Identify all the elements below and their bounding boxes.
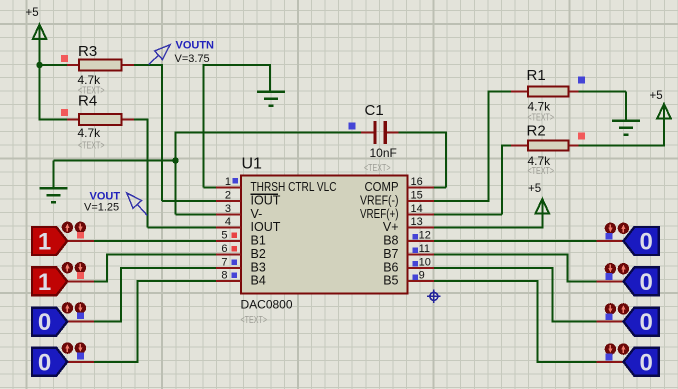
wire ground stem (R1 net): [625, 92, 627, 121]
wire VOUT net to pin 4: [148, 227, 218, 229]
svg-text:R3: R3: [78, 43, 97, 60]
toggle buttons (input 8): [605, 343, 629, 360]
junction at V- net: [172, 157, 178, 163]
svg-text:10: 10: [419, 257, 431, 269]
svg-text:3: 3: [225, 203, 231, 215]
wire C1 left horizontal: [175, 132, 362, 134]
wire VOUT net vertical to pin 4 row: [147, 119, 149, 228]
wire V- net to pin 3: [176, 214, 218, 216]
wire R3 right to corner: [134, 64, 163, 66]
pin 11 logic square blue: [412, 247, 418, 253]
logicstate input 6 (value 0): [597, 267, 659, 296]
pin 15 stub: [408, 200, 435, 202]
logicstate input 2 (value 1): [32, 267, 94, 296]
pin 13 stub: [408, 227, 435, 229]
svg-text:U1: U1: [242, 156, 263, 173]
toggle buttons (input 6): [605, 263, 629, 280]
svg-text:V=1.25: V=1.25: [84, 202, 119, 214]
svg-text:0: 0: [640, 349, 653, 376]
svg-text:0: 0: [38, 349, 51, 376]
resistor R2: [511, 141, 579, 151]
logicstate input 7 (value 0): [597, 308, 659, 337]
svg-text:R4: R4: [78, 93, 97, 110]
pin 10 stub: [408, 267, 435, 269]
wire VOUTN net to pin 2: [162, 200, 217, 202]
logicstate input 3 (value 0): [32, 308, 94, 337]
wire to pin 8: [138, 280, 217, 282]
power +5 terminal (R2 net): [650, 90, 671, 119]
ground symbol (R1 net): [612, 121, 640, 135]
svg-text:B3: B3: [251, 261, 266, 275]
svg-text:B1: B1: [251, 234, 266, 248]
wire logicstate 8 vertical: [537, 281, 539, 363]
svg-text:0: 0: [38, 309, 51, 336]
toggle buttons (input 2): [62, 262, 86, 279]
wire ground stem (VLC net): [269, 64, 271, 91]
svg-text:4: 4: [225, 216, 231, 228]
wire logicstate 8 horizontal: [538, 361, 597, 363]
wire pin 9 horizontal: [434, 280, 539, 282]
probe VOUTN: [149, 45, 170, 65]
svg-text:+5: +5: [650, 90, 663, 102]
pin 7 stub: [216, 267, 241, 269]
pin 9 logic square blue: [412, 274, 418, 280]
wire R2 left to corner: [502, 145, 511, 147]
svg-text:C1: C1: [365, 102, 384, 119]
svg-text:4.7k: 4.7k: [528, 100, 552, 114]
svg-text:V-: V-: [251, 207, 263, 221]
pin 2 stub: [216, 200, 241, 202]
wire R2 right to +5: [579, 145, 666, 147]
wire pin 15 to R1 corner: [434, 200, 489, 202]
pin 1 stub: [216, 187, 241, 189]
wire VLC net vertical to pin 1: [202, 64, 204, 188]
svg-text:16: 16: [411, 176, 423, 188]
pin 12 stub: [408, 240, 435, 242]
svg-text:IOUT: IOUT: [251, 220, 281, 234]
svg-text:DAC0800: DAC0800: [241, 298, 293, 312]
wire R4 right to corner: [134, 119, 148, 121]
wire to R4 left: [39, 119, 68, 121]
wire R1 net vertical: [488, 92, 490, 203]
svg-text:11: 11: [419, 243, 430, 255]
pin 14 stub: [408, 214, 435, 216]
svg-text:VOUTN: VOUTN: [176, 40, 215, 52]
pin 9 stub: [408, 280, 435, 282]
pin 5 stub: [216, 240, 241, 242]
op IC U1 body: [241, 176, 408, 294]
wire VOUTN net vertical down to pin2 row: [161, 64, 163, 201]
underline of THRSH: [251, 193, 279, 195]
wire +5 stem down to R4 row: [39, 39, 41, 120]
pin state square red (R4 left): [61, 109, 68, 116]
ground symbol (V- net, left): [40, 188, 68, 202]
wire R2 net vertical: [501, 145, 503, 215]
svg-text:R2: R2: [527, 123, 546, 140]
svg-text:7: 7: [221, 257, 227, 269]
wire corner to R1 left: [488, 91, 512, 93]
wire logicstate 4 vertical: [137, 280, 139, 363]
junction at +5 / R3 / R4 node: [36, 62, 42, 68]
wire +5 stem down to R2 row: [663, 105, 665, 146]
svg-text:<TEXT>: <TEXT>: [364, 163, 391, 174]
wire to pin 6: [107, 254, 216, 256]
crosshair origin marker: [427, 290, 441, 304]
wire logicstate 1 to pin 5: [93, 240, 216, 242]
pin 1 logic square blue: [232, 178, 238, 184]
pin 8 stub: [216, 280, 241, 282]
logicstate input 1 (value 1): [32, 227, 94, 256]
pin state square red (R2 right): [578, 133, 585, 140]
power +5 terminal (V+ net): [528, 183, 549, 214]
svg-text:B6: B6: [383, 261, 398, 275]
toggle buttons (input 4): [62, 342, 86, 359]
svg-text:IOUT: IOUT: [251, 194, 281, 208]
wire VLC net to pin 1 stub: [203, 187, 217, 189]
toggle buttons (input 7): [605, 303, 629, 320]
capacitor C1: [361, 121, 399, 144]
wire to pin 7: [121, 267, 216, 269]
wire V- net vertical (C1 corner to pin 3 row): [175, 133, 177, 215]
wire V- net horizontal to junction: [54, 160, 176, 162]
resistor R3: [67, 60, 134, 71]
svg-text:12: 12: [419, 230, 431, 242]
resistor R4: [67, 114, 134, 125]
pin 16 stub: [408, 187, 435, 189]
pin 6 stub: [216, 254, 241, 256]
wire C1 net vertical to pin 16 row: [445, 132, 447, 188]
toggle buttons (input 1): [62, 222, 86, 239]
svg-text:B2: B2: [251, 247, 266, 261]
wire R1 right to ground: [579, 91, 627, 93]
svg-text:9: 9: [419, 270, 425, 282]
ground symbol (VLC net): [257, 92, 285, 106]
logicstate input 4 (value 0): [32, 348, 94, 377]
svg-text:15: 15: [411, 190, 423, 202]
svg-text:V=3.75: V=3.75: [175, 53, 210, 65]
wire logicstate 6 vertical: [567, 255, 569, 283]
svg-text:1: 1: [38, 229, 51, 256]
svg-text:10nF: 10nF: [370, 146, 397, 160]
wire logicstate 4 horizontal: [93, 361, 139, 363]
pin 4 stub: [216, 227, 241, 229]
svg-text:5: 5: [221, 230, 227, 242]
svg-text:13: 13: [411, 216, 423, 228]
wire logicstate 7 vertical: [552, 268, 554, 323]
svg-text:VREF(-): VREF(-): [360, 194, 399, 208]
svg-text:B7: B7: [383, 247, 398, 261]
svg-text:R1: R1: [527, 67, 546, 84]
svg-text:2: 2: [225, 190, 231, 202]
svg-text:V+: V+: [383, 220, 399, 234]
svg-text:0: 0: [640, 229, 653, 256]
wire logicstate 2 horizontal: [93, 280, 108, 282]
resistor R1: [511, 87, 579, 97]
pin state square red (R3 left): [61, 55, 68, 62]
wire +5 stem down to pin 13 row: [541, 200, 543, 228]
svg-text:8: 8: [221, 270, 227, 282]
svg-text:<TEXT>: <TEXT>: [528, 166, 555, 177]
wire pin 10 horizontal: [434, 267, 554, 269]
svg-text:B8: B8: [383, 234, 398, 248]
pin 10 logic square blue: [412, 261, 418, 267]
svg-text:+5: +5: [528, 183, 541, 195]
pin 3 stub: [216, 214, 241, 216]
svg-text:+5: +5: [26, 7, 39, 19]
svg-text:0: 0: [640, 309, 653, 336]
wire VLC net top horizontal: [203, 64, 271, 66]
wire logicstate 2 vertical: [106, 254, 108, 283]
logicstate input 8 (value 0): [597, 348, 659, 377]
pin 5 logic square red: [232, 232, 238, 238]
svg-text:4.7k: 4.7k: [78, 126, 102, 140]
wire logicstate 3 horizontal: [93, 321, 122, 323]
toggle buttons (input 3): [62, 302, 86, 319]
svg-text:B4: B4: [251, 274, 266, 288]
wire C1 net to pin 16: [434, 187, 446, 189]
svg-text:1: 1: [38, 269, 51, 296]
wire logicstate 3 vertical: [120, 267, 122, 323]
svg-text:<TEXT>: <TEXT>: [78, 141, 105, 152]
probe VOUT: [127, 193, 148, 216]
wire ground stem (V- net): [53, 161, 55, 189]
wire C1 right horizontal: [399, 132, 447, 134]
wire logicstate 7 horizontal: [553, 321, 597, 323]
svg-text:COMP: COMP: [365, 180, 399, 194]
wire pin 14 to R2 corner: [434, 214, 502, 216]
svg-text:0: 0: [640, 269, 653, 296]
pin state square blue (R1 right): [578, 77, 585, 84]
pin state square blue (C1 left): [348, 123, 355, 130]
pin 12 logic square blue: [412, 234, 418, 240]
svg-text:<TEXT>: <TEXT>: [241, 314, 268, 326]
wire pin 12 to logicstate 5: [434, 240, 597, 242]
pin 11 stub: [408, 254, 435, 256]
wire pin 13 to +5: [434, 227, 543, 229]
pin 6 logic square red: [232, 246, 238, 252]
svg-text:THRSH CTRL VLC: THRSH CTRL VLC: [251, 180, 337, 194]
wire pin 11 horizontal: [434, 254, 569, 256]
svg-text:VREF(+): VREF(+): [360, 207, 399, 221]
svg-text:6: 6: [221, 243, 227, 255]
toggle buttons (input 5): [605, 223, 629, 240]
pin 7 logic square blue: [232, 259, 238, 265]
svg-text:14: 14: [411, 203, 423, 215]
svg-text:B5: B5: [383, 274, 398, 288]
wire logicstate 6 horizontal: [568, 280, 597, 282]
svg-text:1: 1: [225, 176, 231, 188]
wire +5 node to R3 left: [39, 64, 68, 66]
pin 8 logic square blue: [232, 272, 238, 278]
logicstate input 5 (value 0): [597, 227, 659, 256]
power +5 terminal top-left: [26, 7, 47, 40]
